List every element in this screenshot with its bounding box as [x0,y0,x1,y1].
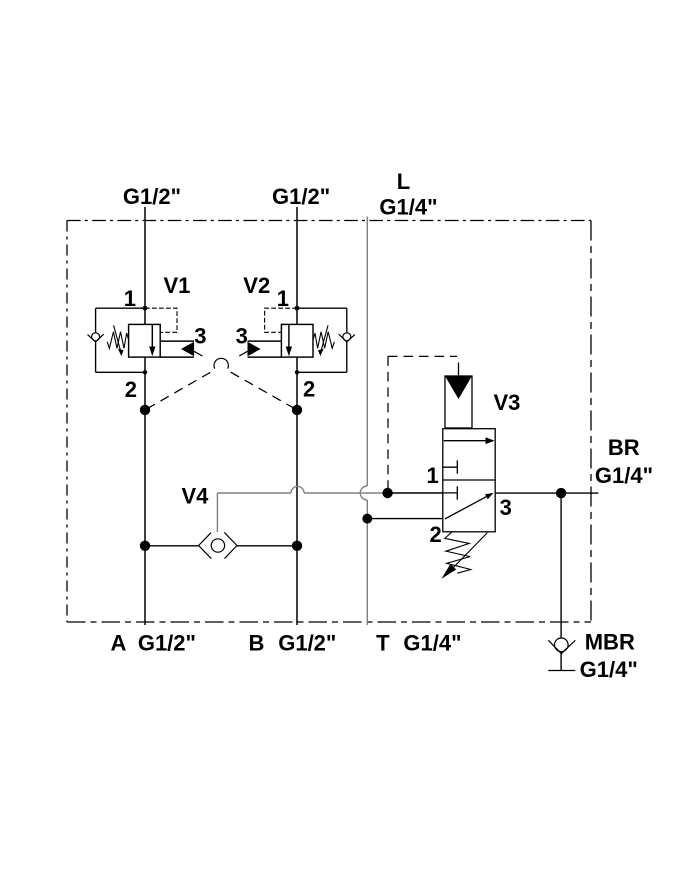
svg-text:T: T [376,630,390,655]
svg-text:G1/2": G1/2" [278,630,336,655]
svg-text:A: A [111,630,127,655]
svg-text:G1/2": G1/2" [138,630,196,655]
svg-text:1: 1 [124,286,136,311]
svg-text:1: 1 [426,463,438,488]
svg-text:2: 2 [429,522,441,547]
svg-text:3: 3 [236,323,248,348]
svg-text:B: B [249,630,265,655]
svg-text:1: 1 [277,286,289,311]
svg-text:G1/2": G1/2" [123,184,181,209]
svg-text:V4: V4 [182,483,210,508]
svg-text:L: L [397,169,410,194]
svg-text:BR: BR [608,435,640,460]
svg-text:3: 3 [194,323,206,348]
svg-text:V3: V3 [494,390,521,415]
svg-text:G1/2": G1/2" [272,184,330,209]
svg-text:G1/4": G1/4" [595,463,653,488]
svg-text:G1/4": G1/4" [580,657,638,682]
svg-text:V1: V1 [164,273,191,298]
svg-text:G1/4": G1/4" [379,194,437,219]
svg-text:3: 3 [500,495,512,520]
svg-text:2: 2 [125,377,137,402]
svg-text:G1/4": G1/4" [403,630,461,655]
svg-text:2: 2 [303,376,315,401]
svg-text:MBR: MBR [585,630,635,655]
svg-text:V2: V2 [243,273,270,298]
